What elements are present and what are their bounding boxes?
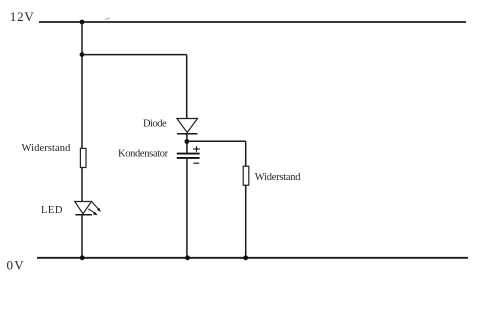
LED D1 arrow 1: [92, 202, 99, 209]
capacitor C1 bottom plate: [177, 157, 200, 159]
resistor R1 body: [80, 148, 86, 167]
wire 0V rail: [37, 257, 468, 259]
LED D1 arrow 2: [88, 209, 94, 213]
wire right branch vertical upper: [245, 141, 247, 166]
wire junction C to right branch: [187, 140, 246, 142]
node junction C: [185, 139, 190, 144]
wire diode branch vertical: [186, 55, 188, 119]
capacitor C1 minus sign: [193, 162, 199, 164]
capacitor C1 top plate: [177, 153, 200, 155]
resistor R2 body: [243, 166, 249, 185]
wire LED to 0V rail: [81, 215, 83, 258]
capacitor C1 plus sign: [193, 148, 200, 150]
wire 12V rail: [39, 21, 466, 23]
svg-text:Widerstand: Widerstand: [22, 143, 72, 154]
wire artifact tick: [105, 18, 110, 20]
wire diode to capacitor: [186, 134, 188, 153]
node junction E: [185, 255, 190, 260]
wire resistor to LED: [81, 168, 83, 202]
wire resistor R2 to 0V rail: [245, 185, 247, 258]
svg-text:12V: 12V: [10, 9, 35, 24]
node junction D: [80, 255, 85, 260]
diode D2 cathode bar: [177, 133, 198, 135]
svg-text:Kondensator: Kondensator: [118, 149, 169, 160]
diode D2 triangle: [177, 119, 198, 133]
wire second rail horizontal: [82, 54, 187, 56]
node junction A: [80, 20, 85, 25]
svg-text:0V: 0V: [7, 257, 26, 272]
svg-text:Diode: Diode: [143, 118, 167, 129]
LED D1 cathode bar: [75, 214, 92, 216]
svg-text:LED: LED: [41, 205, 63, 216]
LED D1 triangle: [75, 202, 92, 214]
node junction F: [243, 255, 248, 260]
wire capacitor to 0V rail: [186, 159, 188, 258]
svg-text:Widerstand: Widerstand: [255, 172, 301, 183]
node junction B: [80, 52, 85, 57]
wire left branch vertical upper: [81, 22, 83, 149]
